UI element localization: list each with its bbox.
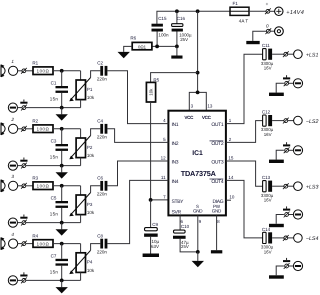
potentiometer P1 xyxy=(69,71,95,108)
node label +LS3 xyxy=(306,184,319,190)
wire VCC vertical to IC xyxy=(197,11,199,92)
wire C14 to terminal xyxy=(272,237,284,239)
svg-text:C11: C11 xyxy=(262,43,270,48)
op-amp IC1 TDA7375A body xyxy=(168,111,226,216)
junction C15/ground link xyxy=(155,45,159,49)
svg-text:IN3: IN3 xyxy=(172,160,179,166)
svg-text:10k: 10k xyxy=(149,88,154,96)
svg-text:3: 3 xyxy=(11,174,14,179)
wire C11 to terminal xyxy=(272,53,284,55)
svg-text:1: 1 xyxy=(229,118,232,123)
svg-text:R2: R2 xyxy=(32,119,38,124)
junction ground rail 4 xyxy=(60,279,64,283)
capacitor C11 xyxy=(261,43,274,70)
wire OUT4 to C14 xyxy=(226,180,263,238)
wire wiper P1 to C2 xyxy=(91,71,101,78)
svg-text:1: 1 xyxy=(11,59,14,64)
wire input 3 to terminal xyxy=(18,185,22,187)
svg-text:0: 0 xyxy=(266,24,269,29)
resistor R4 xyxy=(32,234,53,248)
svg-text:10k: 10k xyxy=(87,268,95,273)
wire C8 to IC input pin xyxy=(107,180,168,243)
ground bar of return 4 xyxy=(269,275,284,278)
junction STBY/C9 xyxy=(149,198,153,202)
svg-text:15n: 15n xyxy=(50,212,59,217)
svg-text:VCC: VCC xyxy=(184,115,194,120)
junction input node 4 xyxy=(60,242,64,246)
input connector 4 xyxy=(1,232,18,250)
connector circle LS2 xyxy=(288,116,303,125)
connector circle 0 xyxy=(270,27,283,36)
capacitor C12 xyxy=(261,110,274,138)
svg-text:2: 2 xyxy=(229,137,232,142)
capacitor C5 xyxy=(50,186,68,223)
wire C15 bottom lead xyxy=(156,32,158,47)
terminal LS2 xyxy=(283,118,289,124)
capacitor C1 xyxy=(50,71,68,108)
svg-text:220n: 220n xyxy=(97,250,108,255)
potentiometer P3 xyxy=(69,186,95,223)
capacitor C2 xyxy=(97,61,108,82)
pin number 13 xyxy=(207,104,213,109)
junction input node 1 xyxy=(60,69,64,73)
svg-text:C5: C5 xyxy=(51,196,57,201)
connector circle LS1 xyxy=(288,50,303,59)
pin number 4 xyxy=(163,118,166,123)
pin number 15 xyxy=(228,156,234,161)
wire R5 to VCC line xyxy=(151,73,198,83)
wire C9 top lead xyxy=(150,200,152,228)
svg-text:−LS2: −LS2 xyxy=(306,119,319,125)
svg-text:25V: 25V xyxy=(180,37,188,42)
svg-text:8: 8 xyxy=(217,219,220,224)
svg-text:100Ω: 100Ω xyxy=(37,69,50,74)
ground return terminal 4 xyxy=(283,258,303,271)
capacitor C13 xyxy=(261,175,274,203)
connector circle +14V4 xyxy=(275,7,283,15)
svg-text:16V: 16V xyxy=(264,198,272,203)
input connector 1 xyxy=(1,59,18,77)
svg-text:15n: 15n xyxy=(50,270,59,275)
svg-text:16V: 16V xyxy=(264,132,272,137)
svg-text:10: 10 xyxy=(229,194,235,199)
svg-text:220n: 220n xyxy=(97,77,108,82)
svg-text:SVR: SVR xyxy=(172,209,182,215)
svg-text:100Ω: 100Ω xyxy=(37,127,50,132)
ground bar of PW-GND xyxy=(211,250,222,253)
terminal +14V4 xyxy=(265,2,275,15)
wire input 4 ground rail xyxy=(26,279,81,281)
wire C2 to IC input pin xyxy=(107,71,168,124)
pin number 14 xyxy=(228,175,234,180)
wire C13 to terminal xyxy=(272,185,284,187)
capacitor C3 xyxy=(50,129,68,166)
pin number 12 xyxy=(161,156,167,161)
svg-text:P1: P1 xyxy=(87,87,93,92)
svg-text:TDA7375A: TDA7375A xyxy=(181,169,217,178)
wire terminal to R1 xyxy=(26,70,33,72)
pin number 2 xyxy=(229,137,232,142)
wire C9 bottom lead xyxy=(150,237,152,254)
svg-text:100n: 100n xyxy=(158,32,169,37)
wire C6 to IC input pin xyxy=(107,161,168,186)
svg-text:100Ω: 100Ω xyxy=(37,241,50,246)
wire input 2 to terminal xyxy=(18,128,22,130)
junction VCC bridge xyxy=(196,91,200,95)
resistor R1 xyxy=(32,61,53,75)
svg-text:C1: C1 xyxy=(51,81,57,86)
wire OUT1 to C11 xyxy=(226,54,263,123)
ground bar of return 1 xyxy=(269,93,284,96)
svg-text:R5: R5 xyxy=(153,78,159,83)
wire OUT3 to C13 xyxy=(226,161,263,186)
wire +14V supply rail xyxy=(157,11,230,24)
svg-text:13: 13 xyxy=(207,104,213,109)
pin number 3 xyxy=(191,104,194,109)
capacitor C10 xyxy=(173,224,190,249)
svg-text:OUT3: OUT3 xyxy=(211,160,224,166)
wire ground return 1 xyxy=(276,83,284,92)
terminal input 3 xyxy=(21,183,27,189)
wire C12 to terminal xyxy=(272,120,284,122)
ground of channel 4 xyxy=(56,280,68,293)
junction input node 2 xyxy=(60,127,64,131)
wire wiper P2 to C4 xyxy=(91,129,101,136)
wire C16 top lead xyxy=(176,11,178,24)
svg-text:C10: C10 xyxy=(181,224,190,229)
ground bar of C9 xyxy=(143,254,159,258)
svg-text:10k: 10k xyxy=(87,210,95,215)
capacitor C15 xyxy=(152,16,170,37)
svg-text:220n: 220n xyxy=(97,135,108,140)
pin number 5 xyxy=(163,137,166,142)
svg-text:100Ω: 100Ω xyxy=(37,184,50,189)
pin number 6 xyxy=(181,219,184,224)
svg-text:R6: R6 xyxy=(130,36,136,41)
svg-text:C6: C6 xyxy=(97,176,103,181)
fuse F1 xyxy=(230,1,249,24)
svg-text:+14V4: +14V4 xyxy=(286,10,304,16)
svg-text:12: 12 xyxy=(161,156,167,161)
junction ground rail 3 xyxy=(60,221,64,225)
wire C10 to S-GND node xyxy=(180,239,198,252)
ground of channel 2 xyxy=(56,166,68,179)
svg-text:C14: C14 xyxy=(262,227,271,232)
svg-text:OUT1: OUT1 xyxy=(211,122,224,128)
svg-text:C16: C16 xyxy=(177,16,186,21)
ground terminal of input 4 xyxy=(8,272,27,285)
input connector 3 xyxy=(1,174,18,192)
wire R2 to node xyxy=(53,128,81,130)
potentiometer P4 xyxy=(69,244,95,281)
svg-text:IN4: IN4 xyxy=(172,179,179,185)
terminal LS1 xyxy=(283,51,289,57)
svg-text:5: 5 xyxy=(163,137,166,142)
svg-text:9: 9 xyxy=(199,219,202,224)
pin number 9 xyxy=(199,219,202,224)
terminal LS4 xyxy=(283,235,289,241)
wire wiper P3 to C6 xyxy=(91,186,101,193)
wire wiper P4 to C8 xyxy=(91,244,101,251)
svg-text:IN1: IN1 xyxy=(172,122,179,128)
svg-text:GND: GND xyxy=(212,208,222,213)
svg-text:16V: 16V xyxy=(264,66,272,71)
svg-text:C4: C4 xyxy=(97,119,103,124)
ground of channel 3 xyxy=(56,223,68,236)
svg-text:10k: 10k xyxy=(87,95,95,100)
wire ground link R6-C15-C16 xyxy=(152,45,177,47)
ground bar of return 3 xyxy=(269,224,284,227)
wire ground return 2 xyxy=(276,150,284,159)
node label -LS2 xyxy=(306,119,319,125)
ground bar below C16 xyxy=(171,46,182,58)
capacitor C8 xyxy=(97,233,108,254)
svg-text:P4: P4 xyxy=(87,260,93,265)
node label +LS1 xyxy=(306,52,319,58)
pin 10 DIAG stub xyxy=(226,199,231,201)
svg-text:IN2: IN2 xyxy=(172,141,179,147)
svg-text:63V: 63V xyxy=(151,244,159,249)
pin number 10 xyxy=(229,194,235,199)
connector circle LS4 xyxy=(288,234,303,243)
wire C4 to IC input pin xyxy=(107,129,168,143)
ground of S-GND xyxy=(192,252,204,267)
svg-text:GND: GND xyxy=(193,208,203,213)
ground terminal of input 3 xyxy=(8,215,27,228)
wire C16 bottom lead xyxy=(176,32,178,47)
ground return terminal 3 xyxy=(283,206,303,219)
terminal input 4 xyxy=(21,241,27,247)
wire R4 to node xyxy=(53,243,81,245)
svg-text:STBY: STBY xyxy=(172,199,185,205)
wire terminal to R4 xyxy=(26,243,33,245)
svg-text:4: 4 xyxy=(163,118,166,123)
svg-text:P2: P2 xyxy=(87,145,93,150)
svg-text:OUT4: OUT4 xyxy=(211,179,224,185)
pin number 11 xyxy=(161,175,166,180)
capacitor C6 xyxy=(97,176,108,197)
svg-text:7: 7 xyxy=(163,194,166,199)
svg-text:VCC: VCC xyxy=(202,115,212,120)
resistor R3 xyxy=(32,176,53,190)
terminal LS3 xyxy=(283,183,289,189)
junction S-GND node xyxy=(196,250,200,254)
svg-text:IC1: IC1 xyxy=(192,150,203,157)
svg-text:R1: R1 xyxy=(32,61,38,66)
pin number 1 xyxy=(229,118,232,123)
terminal input 2 xyxy=(21,126,27,132)
svg-text:25V: 25V xyxy=(181,244,189,249)
ground terminal of input 2 xyxy=(8,158,27,171)
svg-text:F1: F1 xyxy=(233,1,239,6)
capacitor C4 xyxy=(97,119,108,140)
resistor R2 xyxy=(32,119,53,133)
svg-text:OUT2: OUT2 xyxy=(211,141,224,147)
wire R1 to node xyxy=(53,70,81,72)
svg-text:C13: C13 xyxy=(262,175,271,180)
svg-text:16V: 16V xyxy=(264,249,272,254)
wire R3 to node xyxy=(53,185,81,187)
svg-text:C7: C7 xyxy=(51,253,57,258)
junction R5/VCC line xyxy=(196,71,200,75)
svg-text:11: 11 xyxy=(161,175,166,180)
node label -LS4 xyxy=(306,236,319,242)
svg-text:C9: C9 xyxy=(152,222,158,227)
ground return terminal 1 xyxy=(283,75,303,88)
junction ground rail 2 xyxy=(60,164,64,168)
junction input node 3 xyxy=(60,184,64,188)
wire fuse to +14V4 terminal xyxy=(249,10,266,12)
wire S-GND pin 9 lead xyxy=(197,215,199,252)
node label +14V4 xyxy=(286,10,304,16)
wire R6 left lead xyxy=(124,46,133,52)
svg-text:−LS4: −LS4 xyxy=(306,236,319,242)
svg-text:14: 14 xyxy=(228,175,234,180)
svg-text:+LS3: +LS3 xyxy=(306,184,319,190)
input connector 2 xyxy=(1,117,18,135)
wire input 1 to terminal xyxy=(18,70,22,72)
svg-text:+LS1: +LS1 xyxy=(306,52,319,58)
svg-text:R3: R3 xyxy=(32,176,38,181)
potentiometer P2 xyxy=(69,129,95,166)
VCC bridge pins 3 and 13 xyxy=(189,92,206,110)
resistor R5 xyxy=(146,78,159,102)
pin number 8 xyxy=(217,219,220,224)
wire input 3 ground rail xyxy=(26,222,81,224)
ground bar of return 2 xyxy=(269,160,284,163)
svg-text:C12: C12 xyxy=(262,110,271,115)
wire R5 to STBY xyxy=(151,102,169,200)
capacitor C14 xyxy=(261,227,274,255)
junction C16/rail xyxy=(175,9,179,13)
wire input 1 ground rail xyxy=(26,107,81,109)
resistor R6 xyxy=(130,36,152,50)
junction ground rail 1 xyxy=(60,106,64,110)
svg-text:C15: C15 xyxy=(158,16,167,21)
wire 0 terminal to ground bar xyxy=(253,31,267,41)
connector circle LS3 xyxy=(288,182,303,191)
capacitor C7 xyxy=(50,244,68,281)
capacitor C16 xyxy=(172,16,192,42)
ground of R6 xyxy=(118,52,130,58)
wire OUT2 to C12 xyxy=(226,121,263,143)
wire ground return 4 xyxy=(276,266,284,275)
terminal input 1 xyxy=(21,68,27,74)
svg-text:+: + xyxy=(266,2,269,7)
wire input 4 to terminal xyxy=(18,243,22,245)
svg-text:4: 4 xyxy=(11,232,14,237)
svg-text:C3: C3 xyxy=(51,139,57,144)
svg-text:R4: R4 xyxy=(32,234,38,239)
ground bar of 0 terminal xyxy=(246,41,259,44)
svg-text:10k: 10k xyxy=(87,153,95,158)
junction VCC line/rail xyxy=(196,9,200,13)
wire SVR pin 6 lead xyxy=(179,215,181,230)
wire input 2 ground rail xyxy=(26,165,81,167)
pin number 7 xyxy=(163,194,166,199)
wire terminal to R3 xyxy=(26,185,33,187)
svg-text:3: 3 xyxy=(191,104,194,109)
svg-text:P3: P3 xyxy=(87,202,93,207)
wire terminal to R2 xyxy=(26,128,33,130)
svg-text:C8: C8 xyxy=(97,233,103,238)
ground terminal of input 1 xyxy=(8,100,27,113)
svg-text:C2: C2 xyxy=(97,61,103,66)
svg-text:0Ω1: 0Ω1 xyxy=(138,44,147,49)
svg-text:4A T: 4A T xyxy=(239,19,249,24)
svg-text:2: 2 xyxy=(10,117,14,122)
wire ground return 3 xyxy=(276,215,284,224)
svg-text:15n: 15n xyxy=(50,97,59,102)
svg-text:15n: 15n xyxy=(50,155,59,160)
terminal 0 (supply return) xyxy=(265,24,271,34)
ground return terminal 2 xyxy=(283,142,303,155)
ground of channel 1 xyxy=(56,108,68,121)
svg-text:15: 15 xyxy=(228,156,234,161)
svg-text:220n: 220n xyxy=(97,192,108,197)
wire PW-GND pin 8 lead xyxy=(216,215,218,250)
junction C16/ground link xyxy=(175,45,179,49)
capacitor C9 xyxy=(144,222,159,249)
